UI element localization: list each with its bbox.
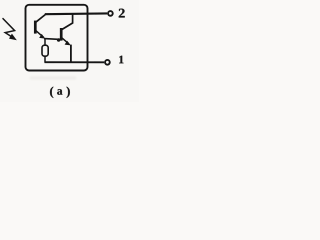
resistor top lead: [44, 39, 46, 45]
base wire from Q1 emitter node to Q2 base: [44, 38, 61, 41]
Q2 emitter lead: [62, 38, 69, 44]
caption (: [50, 87, 53, 98]
phototransistor Q1 base bar: [34, 21, 37, 34]
label 2: [119, 9, 125, 18]
light arrow head: [9, 34, 17, 41]
transistor Q2 base bar: [60, 28, 63, 41]
bottom rail wire to terminal 1: [45, 61, 105, 63]
Q1 emitter arrowhead: [39, 34, 45, 39]
resistor bottom lead: [44, 56, 46, 62]
terminal 2 circle: [108, 11, 113, 16]
Q2 emitter vertical wire to bottom rail: [70, 45, 72, 63]
junction dot at Q2 base: [57, 38, 60, 41]
resistor R body: [42, 45, 48, 56]
Q1 collector lead: [36, 14, 46, 22]
Q2 emitter arrowhead: [65, 41, 71, 46]
top wire to terminal 2: [45, 12, 107, 15]
faint scan smudge under box: [30, 77, 76, 80]
terminal 1 circle: [105, 60, 110, 65]
Q2 collector lead: [62, 14, 73, 30]
caption a: [57, 89, 62, 95]
package box outline: [26, 5, 88, 71]
light arrow (incident light symbol): [3, 19, 15, 38]
background: [0, 0, 139, 102]
label 1: [119, 56, 123, 64]
Q1 emitter lead: [36, 31, 44, 38]
caption ): [67, 87, 70, 98]
